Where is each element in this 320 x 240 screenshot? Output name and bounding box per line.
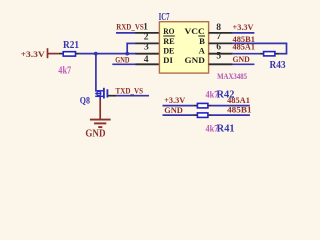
node junction 1	[94, 52, 98, 56]
svg-text:VCC: VCC	[185, 26, 205, 36]
wire junction2 to pin2 (RE)	[126, 43, 136, 54]
wire Q8 source down	[99, 96, 101, 100]
net label GND + wire pin4	[112, 54, 136, 64]
svg-text:+3.3V: +3.3V	[164, 95, 186, 105]
sheet background	[0, 0, 320, 149]
svg-text:GND: GND	[185, 55, 205, 65]
resistor R42	[193, 90, 234, 108]
svg-text:3: 3	[144, 42, 149, 53]
pin numbers left 1-4	[143, 22, 149, 65]
pin numbers right 8-5	[216, 22, 221, 62]
node junction 2	[125, 52, 129, 56]
svg-text:GND: GND	[164, 105, 183, 115]
transistor Q8 NMOS glyph	[95, 88, 107, 99]
svg-text:DE: DE	[163, 46, 175, 56]
wire R42 to 485A1	[212, 95, 250, 106]
svg-text:GND: GND	[115, 54, 129, 64]
svg-text:5: 5	[216, 51, 221, 62]
svg-text:+3.3V: +3.3V	[233, 22, 255, 32]
IC7 MAX3485 pins left (dark)	[136, 33, 160, 64]
svg-text:4: 4	[144, 54, 149, 65]
svg-text:RO: RO	[163, 26, 175, 36]
resistor R41	[193, 113, 234, 135]
svg-text:B: B	[199, 36, 205, 46]
pin names inside IC	[163, 26, 205, 65]
svg-text:485A1: 485A1	[233, 41, 256, 51]
svg-text:IC7: IC7	[159, 11, 170, 23]
svg-text:A: A	[199, 46, 206, 56]
resistor R43 (termination)	[260, 52, 288, 71]
net label 485A1 pin6 + wire	[233, 41, 260, 53]
power port +3.3V (left)	[21, 48, 59, 59]
svg-text:RXD_VS: RXD_VS	[116, 21, 144, 31]
IC U1 IC7 MAX3485 body	[159, 11, 248, 81]
svg-text:GND: GND	[85, 129, 105, 140]
wire R41 to 485B1	[212, 105, 252, 116]
TXD_VS net label + wire from Q8 drain	[108, 86, 149, 96]
svg-text:R43: R43	[270, 60, 286, 71]
svg-text:MAX3485: MAX3485	[217, 71, 247, 81]
bottom bias network: net label +3.3V	[163, 95, 194, 106]
wire R21 to IC pin3	[79, 53, 136, 55]
net label RXD_VS + wire pin1	[116, 21, 144, 33]
svg-text:TXD_VS: TXD_VS	[116, 86, 144, 96]
svg-text:RE: RE	[163, 36, 175, 46]
svg-text:4k7: 4k7	[206, 124, 219, 135]
IC pins right (dark)	[209, 33, 233, 64]
svg-text:485A1: 485A1	[227, 95, 250, 105]
bottom net label GND	[163, 105, 194, 115]
svg-text:DI: DI	[163, 55, 173, 65]
svg-text:4k7: 4k7	[58, 66, 71, 77]
net label 485B1 pin7 + wire to loop	[233, 34, 288, 54]
svg-text:R41: R41	[217, 124, 235, 135]
svg-text:GND: GND	[233, 54, 250, 64]
svg-text:485B1: 485B1	[227, 105, 252, 115]
wire junction1 down to Q8 gate	[95, 54, 97, 92]
resistor R21	[58, 40, 79, 76]
net label +3.3V pin8 + wire	[233, 22, 255, 33]
ground symbol	[90, 120, 111, 128]
net label GND pin5 + wire	[233, 54, 255, 64]
svg-text:Q8: Q8	[80, 96, 90, 107]
svg-text:4k7: 4k7	[206, 90, 219, 101]
svg-text:R21: R21	[63, 40, 79, 51]
svg-text:+3.3V: +3.3V	[21, 49, 46, 59]
